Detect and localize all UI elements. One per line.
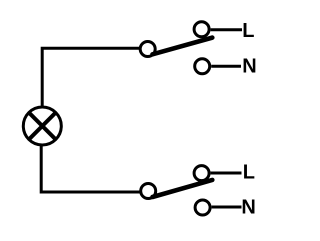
wire from lamp bottom to bottom switch pivot — [41, 145, 140, 193]
wire N terminal (top) — [211, 65, 241, 68]
svg-text:L: L — [242, 20, 254, 42]
svg-text:L: L — [243, 162, 255, 184]
switch SW1 L contact — [194, 22, 209, 37]
switch SW1 pivot contact — [140, 42, 155, 57]
terminal N (top) — [195, 59, 210, 74]
wire SW2 L contact to L terminal — [211, 172, 242, 175]
switch SW2 pivot contact — [141, 184, 156, 199]
wire from lamp top to top switch pivot — [42, 48, 140, 108]
switch SW2 L contact — [194, 166, 209, 181]
svg-text:N: N — [242, 56, 256, 78]
svg-text:N: N — [241, 197, 255, 219]
terminal N (bottom) — [195, 200, 210, 215]
wire SW1 L contact to L terminal — [211, 28, 242, 31]
switch SW1 lever — [153, 38, 213, 55]
switch SW2 lever — [153, 180, 213, 197]
lamp E1 — [23, 107, 61, 145]
wire N terminal (bottom) — [212, 206, 242, 209]
